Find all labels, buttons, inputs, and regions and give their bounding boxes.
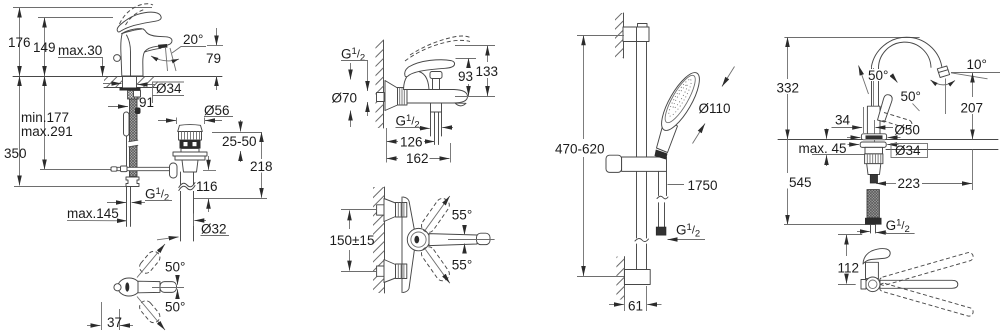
svg-text:55°: 55°	[452, 208, 472, 223]
dim 350 vertical line with arrows	[19, 76, 21, 186]
O34 right arrow	[887, 144, 898, 146]
O34 callout box	[153, 82, 185, 96]
dim 34 line with arrow	[832, 127, 863, 129]
svg-text:34: 34	[835, 113, 851, 128]
cartridge slot	[414, 236, 419, 244]
spout inner arc	[878, 42, 931, 69]
outlet block	[937, 66, 949, 78]
O70 upper arrow	[350, 63, 352, 80]
top view body column	[866, 262, 879, 278]
50deg lower small arrow	[177, 289, 179, 298]
dashed spout up	[879, 252, 975, 287]
O34 boxed label	[891, 144, 928, 158]
rod clamp	[121, 166, 128, 172]
dim 176 vertical line with arrows	[19, 8, 21, 77]
hose nub outer walls	[430, 112, 432, 136]
218 bottom ref line	[194, 198, 267, 200]
counter bottom line left	[104, 87, 122, 89]
horizontal pop-up rod	[111, 167, 172, 170]
bottom wall line	[624, 257, 626, 300]
reference line supply end level	[14, 186, 135, 188]
top bracket	[623, 27, 649, 42]
G1/2 lower arrow left	[442, 127, 453, 129]
cartridge circle	[407, 228, 429, 250]
svg-text:50°: 50°	[868, 68, 888, 83]
svg-text:207: 207	[961, 101, 984, 116]
O32 leader arrow to pipe	[157, 237, 179, 240]
supply nut	[126, 177, 139, 187]
body column	[867, 106, 880, 136]
55deg lower diagonal	[425, 249, 449, 283]
hose inner pipe	[434, 112, 436, 145]
pop-up rod stud	[135, 108, 141, 115]
hose lower	[658, 203, 660, 227]
dim 223 left arrow	[876, 183, 888, 185]
O56 left arrow	[158, 120, 176, 122]
37 ext line right	[119, 309, 121, 330]
drain dark band with windows	[180, 140, 201, 149]
G1/2 left up arrow	[367, 102, 369, 116]
upper escutcheon cone	[384, 199, 396, 222]
supply hose braided	[867, 190, 879, 218]
hose break gap	[129, 140, 139, 147]
svg-text:133: 133	[476, 64, 499, 79]
61 ext line left	[624, 286, 626, 311]
escutcheon cone	[385, 81, 398, 111]
10deg angled line	[951, 73, 988, 79]
riser left wall	[871, 68, 873, 107]
545 bottom ref line	[784, 224, 875, 226]
dim 332 line upper	[787, 37, 789, 79]
25-50 lower arrow	[240, 151, 242, 162]
svg-text:1750: 1750	[688, 178, 718, 193]
hose break	[657, 196, 668, 199]
150pm15 lower ref line	[341, 271, 377, 273]
G1/2 underline	[886, 233, 915, 235]
dashed spout down	[879, 282, 975, 317]
shower head outer	[655, 68, 707, 136]
112 lower arrow	[846, 275, 848, 284]
dim 470-620 top ref	[577, 35, 624, 37]
handle raised position dashed	[120, 4, 154, 24]
150pm15 upper arrow	[349, 210, 351, 229]
112 bottom ref line	[838, 284, 856, 286]
55deg lower small arrow	[464, 244, 466, 252]
top wall hatch	[615, 13, 623, 58]
shower hose nub	[431, 103, 442, 112]
diverter knob	[433, 79, 440, 90]
max.45 underline leader	[812, 154, 867, 156]
dim 470-620 bottom ref	[577, 276, 624, 278]
top ref line	[784, 37, 919, 39]
washer below counter	[860, 142, 886, 147]
counter top line	[778, 139, 998, 141]
hose end cap	[865, 218, 882, 225]
wall face ext line below	[386, 128, 388, 163]
flange dark gasket	[866, 135, 883, 139]
supply hose braided column	[130, 99, 138, 177]
150pm15 lower arrow	[349, 250, 351, 271]
lower block	[867, 164, 881, 175]
drain ribbed ring	[179, 132, 202, 141]
116 upper arrow	[208, 156, 210, 170]
svg-text:149: 149	[33, 40, 56, 55]
37 right arrow	[120, 325, 133, 327]
svg-text:61: 61	[628, 299, 643, 314]
ribbed mounting nut	[865, 154, 883, 164]
dim 91 arrow	[108, 106, 128, 108]
drain rod joint	[170, 163, 178, 178]
G1/2 underline	[145, 200, 172, 202]
outlet stream line	[945, 79, 947, 115]
dim 133 line lower	[487, 78, 489, 96]
dim 126 left arrow	[387, 141, 399, 143]
dim 133 line upper	[487, 46, 489, 63]
svg-text:176: 176	[8, 35, 31, 50]
svg-text:Ø50: Ø50	[894, 123, 920, 138]
max.145 underline with arrow	[67, 219, 127, 221]
O34 arrows at shank	[103, 83, 122, 85]
wall hatch front view	[376, 40, 384, 128]
lever top view	[429, 234, 477, 246]
34 ext line	[863, 107, 865, 133]
top view handle screw	[114, 284, 121, 291]
dim 218 vertical line	[261, 132, 263, 159]
37 left arrow	[87, 325, 101, 327]
G1/2 left down arrow	[367, 61, 369, 91]
faucet body outline	[121, 29, 172, 76]
dashed lever rotated up	[137, 249, 162, 276]
svg-text:max.291: max.291	[21, 124, 73, 139]
dim 207 line lower	[972, 114, 974, 139]
counter hatch left	[104, 77, 122, 88]
threaded stud	[870, 175, 877, 184]
swivel arc arrows	[931, 80, 956, 85]
svg-text:470-620: 470-620	[555, 142, 605, 157]
dashed lever down	[419, 244, 452, 283]
dashed lever rotated down	[137, 298, 162, 325]
O50 flange left arrow	[847, 137, 860, 139]
dim 545 line upper	[787, 139, 789, 173]
dim 93 line upper	[468, 58, 470, 68]
svg-text:10°: 10°	[967, 57, 987, 72]
top bracket cap	[638, 24, 648, 29]
lower escutcheon cone	[384, 260, 396, 283]
cartridge inner circle	[411, 232, 426, 247]
holder knob	[606, 155, 622, 172]
lever raised dashed	[405, 40, 470, 61]
svg-text:Ø70: Ø70	[332, 91, 358, 106]
svg-text:126: 126	[400, 135, 423, 150]
dim 79 upper arrow	[216, 28, 218, 46]
bottom bracket	[624, 270, 650, 285]
50deg lower diagonal	[137, 297, 165, 331]
svg-text:max.30: max.30	[58, 43, 102, 58]
svg-text:93: 93	[458, 69, 473, 84]
faucet spout underside line	[145, 48, 162, 52]
faucet inner seam	[127, 35, 131, 76]
spout outer arc	[871, 37, 941, 66]
162 ext line at outlet	[450, 143, 452, 163]
O34 left arrow	[848, 144, 860, 146]
lower union nut	[396, 264, 407, 279]
hose nut dark	[656, 227, 666, 235]
svg-text:20°: 20°	[183, 32, 203, 47]
svg-text:Ø56: Ø56	[204, 103, 230, 118]
in-wall supply square	[377, 93, 385, 102]
lever handle	[405, 60, 455, 77]
wall hatch bottom view	[373, 187, 384, 293]
svg-text:50°: 50°	[901, 89, 921, 104]
dim 162 left arrow	[387, 158, 399, 160]
O70 lower arrow	[350, 111, 352, 128]
dim 207 line upper	[972, 73, 974, 97]
drain body	[182, 160, 198, 172]
O110 lower dim segment	[693, 124, 706, 144]
riser right wall	[878, 70, 880, 107]
faucet axis line	[874, 120, 876, 174]
left tab	[861, 280, 866, 290]
rail upper segment	[636, 42, 638, 158]
lever tip cap	[477, 233, 491, 244]
svg-text:min.177: min.177	[21, 110, 69, 125]
G1/2 stub left arrow	[857, 231, 870, 233]
112 upper arrow	[846, 235, 848, 256]
solid lever blade	[878, 95, 893, 122]
lower supply square	[377, 266, 384, 276]
svg-text:350: 350	[4, 146, 27, 161]
max.45 upper arrow	[826, 129, 828, 139]
svg-text:max.145: max.145	[67, 206, 119, 221]
dim 25-50 top ref line	[212, 132, 262, 134]
drain O56 ext line left	[176, 118, 178, 125]
top view lever cap	[160, 282, 177, 293]
61 ext line right	[646, 286, 648, 311]
pivot circle	[865, 277, 880, 292]
dim 332 line lower	[787, 94, 789, 139]
G1/2 lower underline	[396, 127, 425, 129]
top view handle head	[118, 278, 141, 296]
drain tailpipe	[180, 172, 182, 241]
svg-text:112: 112	[838, 261, 860, 276]
shower handle dark band	[655, 150, 668, 160]
dim max.30 down arrow	[102, 60, 104, 76]
pipe stub	[870, 225, 872, 233]
top view handle slot	[125, 282, 129, 291]
rail break	[635, 238, 649, 241]
25-50 upper arrow	[240, 120, 242, 132]
svg-text:150±15: 150±15	[330, 233, 375, 248]
dashed lever up	[419, 196, 452, 235]
svg-text:332: 332	[777, 81, 800, 96]
svg-text:Ø110: Ø110	[699, 101, 731, 116]
dim min.177 max.291 vertical line	[44, 76, 46, 170]
base flange	[861, 134, 886, 140]
dim 79 top tick	[207, 45, 223, 47]
mixer body	[407, 90, 468, 104]
svg-text:116: 116	[196, 179, 218, 194]
holder block	[622, 157, 667, 171]
mounting bracket	[865, 147, 883, 154]
dim 149 top reference line	[38, 17, 113, 19]
10deg horizontal line	[951, 72, 1000, 74]
pop-up rod loop	[124, 112, 130, 136]
G1/2 arrows at pipe	[107, 202, 126, 204]
dim 223 line mid	[888, 183, 896, 185]
drain neck	[181, 149, 199, 153]
spout outlet lip	[455, 103, 466, 106]
supply pipe G1/2	[126, 187, 128, 227]
rail mid segment	[636, 171, 638, 238]
20deg arc with arrows	[151, 56, 179, 61]
dome edge under lever	[122, 29, 142, 34]
svg-text:50°: 50°	[165, 300, 185, 315]
dashed leader tick	[913, 104, 920, 112]
svg-text:545: 545	[789, 175, 812, 190]
mounting flange under counter	[120, 88, 141, 91]
upper union nut	[396, 203, 407, 218]
O32 right wall tick	[193, 214, 195, 227]
dim 79 lower arrow	[216, 76, 218, 90]
top view lever	[863, 249, 890, 264]
pop-up rod lower	[126, 136, 128, 168]
1750 leader	[668, 184, 685, 186]
dim 545 line lower	[787, 189, 789, 225]
61 left arrow	[609, 304, 624, 306]
20deg leader	[172, 47, 206, 54]
dim text 50deg first	[867, 69, 890, 81]
55deg upper diagonal	[425, 196, 449, 230]
union nut ribbed	[398, 88, 408, 106]
reference line hose end level	[40, 169, 112, 171]
dim 149 vertical line with arrows	[44, 18, 46, 77]
threaded shank dark	[128, 91, 140, 100]
bottom wall hatch	[616, 257, 624, 300]
body top view outline	[401, 197, 403, 293]
50deg upper diagonal	[137, 244, 165, 278]
counter bottom line right	[886, 149, 998, 151]
counter top line	[13, 76, 222, 78]
rod end cap	[111, 167, 117, 171]
upper supply square	[377, 205, 384, 215]
37 ext line left	[101, 302, 103, 330]
112 top ref line	[838, 234, 862, 236]
spout outlet lip	[158, 44, 168, 48]
G1/2 stub right arrow	[876, 232, 887, 234]
svg-text:Ø34: Ø34	[156, 81, 182, 96]
dome cap	[404, 71, 430, 90]
dim 223 right arrow	[922, 183, 972, 185]
dim 93/133 bottom ref line	[455, 96, 495, 98]
pop-up knob	[114, 55, 121, 62]
svg-text:max. 45: max. 45	[799, 141, 847, 156]
O32 arrow right side	[194, 220, 206, 222]
O110 upper dim segment	[722, 67, 735, 87]
tailpipe break symbol	[179, 185, 196, 192]
dim 470-620 line upper	[583, 35, 585, 139]
svg-text:79: 79	[206, 51, 221, 66]
dim 470-620 line lower	[583, 157, 585, 276]
shank through counter	[122, 76, 124, 88]
dim 176 top reference line	[13, 7, 152, 9]
wall line bottom view	[384, 187, 386, 293]
top view lever arm	[138, 281, 160, 293]
shower head face	[660, 72, 700, 126]
dim 93 line lower	[468, 84, 470, 96]
55deg upper small arrow	[464, 227, 466, 235]
max.45 lower arrow	[826, 155, 828, 166]
svg-text:218: 218	[250, 159, 273, 174]
solid spout bar	[880, 280, 958, 288]
150pm15 upper ref line	[341, 209, 377, 211]
svg-text:223: 223	[898, 176, 921, 191]
dashed lever lines	[884, 113, 910, 121]
pivot inner circle	[868, 280, 877, 289]
shower handle	[657, 119, 678, 153]
dim 133 top ref line	[455, 45, 495, 47]
drain cap	[178, 125, 203, 132]
svg-text:55°: 55°	[452, 258, 472, 273]
svg-text:25-50: 25-50	[222, 134, 257, 149]
223 ext line	[972, 150, 974, 191]
O34 box stub	[152, 96, 154, 104]
wall line front view	[383, 40, 385, 128]
O50 flange right arrow	[888, 137, 901, 139]
20deg stream line angled	[170, 48, 176, 71]
faucet handle lever	[117, 12, 161, 32]
shower face dotted rings	[666, 77, 695, 118]
G1/2 arrow leader	[668, 239, 706, 241]
dim max.30 underline leader	[58, 58, 103, 65]
centerline right	[152, 287, 184, 289]
50deg arc arrow	[876, 74, 898, 83]
counter hatch right	[137, 77, 158, 88]
svg-text:Ø32: Ø32	[201, 222, 227, 237]
61 right arrow	[647, 304, 661, 306]
116 side ref tick	[203, 170, 216, 172]
116 lower arrow	[208, 199, 210, 212]
G1/2 underline	[341, 60, 368, 62]
hose upper	[658, 171, 660, 195]
svg-text:162: 162	[406, 151, 429, 166]
dim 126 right arrow	[424, 141, 435, 143]
drain flange	[173, 152, 207, 156]
rail lower segment	[636, 244, 638, 270]
50deg angle line up-left	[859, 66, 869, 95]
dim 162 right arrow	[430, 158, 450, 160]
O56 right arrow	[205, 120, 222, 122]
svg-text:50°: 50°	[165, 260, 185, 275]
svg-text:91: 91	[139, 95, 154, 110]
top wall line	[623, 13, 625, 58]
G1/2 lower arrow right	[419, 127, 430, 129]
svg-text:37: 37	[107, 315, 122, 330]
centerline	[448, 239, 495, 241]
dim 93 top ref line	[456, 58, 477, 60]
drain O56 ext line right	[204, 118, 206, 125]
counter bottom line right	[137, 87, 158, 89]
O50 leader arrow	[875, 127, 893, 129]
20deg stream line vertical	[166, 48, 168, 71]
lever vertical ref line	[873, 68, 875, 106]
svg-text:Ø34: Ø34	[895, 143, 921, 158]
50deg upper small arrow	[177, 276, 179, 285]
